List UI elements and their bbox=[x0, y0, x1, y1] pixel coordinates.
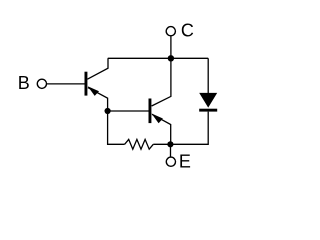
terminal C circle bbox=[166, 27, 175, 36]
transistor Q1 emitter wire bbox=[88, 88, 108, 111]
transistor Q1 emitter arrow (PNP) bbox=[88, 86, 99, 96]
transistor Q1 base bar bbox=[85, 72, 88, 96]
svg-text:B: B bbox=[18, 73, 30, 93]
node C junction dot bbox=[168, 55, 174, 61]
svg-text:C: C bbox=[181, 21, 194, 41]
transistor Q2 emitter arrow (PNP) bbox=[152, 114, 163, 124]
transistor Q2 base bar bbox=[149, 99, 152, 124]
transistor Q2 collector wire bbox=[152, 58, 171, 106]
diode D1 cathode bar bbox=[199, 109, 217, 112]
wire N1 down to resistor bbox=[108, 111, 125, 144]
svg-text:E: E bbox=[179, 152, 191, 172]
wire N1 to Q2 base bbox=[108, 110, 149, 112]
terminal B circle bbox=[37, 79, 46, 88]
node E junction dot bbox=[167, 141, 173, 147]
wire C terminal to node bbox=[170, 36, 172, 58]
wire B to Q1 base bbox=[47, 83, 85, 85]
transistor Q1 collector wire bbox=[87, 58, 108, 79]
node N1 junction dot bbox=[105, 108, 111, 114]
diode D1 cathode wire bbox=[170, 112, 208, 145]
wire resistor to node E bbox=[153, 143, 170, 145]
transistor Q2 emitter wire bbox=[152, 114, 171, 144]
terminal E circle bbox=[166, 157, 175, 166]
diode D1 anode wire bbox=[207, 58, 209, 93]
top wire C net bbox=[108, 57, 208, 59]
resistor R1 bbox=[125, 139, 154, 149]
diode D1 triangle bbox=[199, 93, 217, 108]
wire node E to terminal E bbox=[170, 144, 172, 157]
